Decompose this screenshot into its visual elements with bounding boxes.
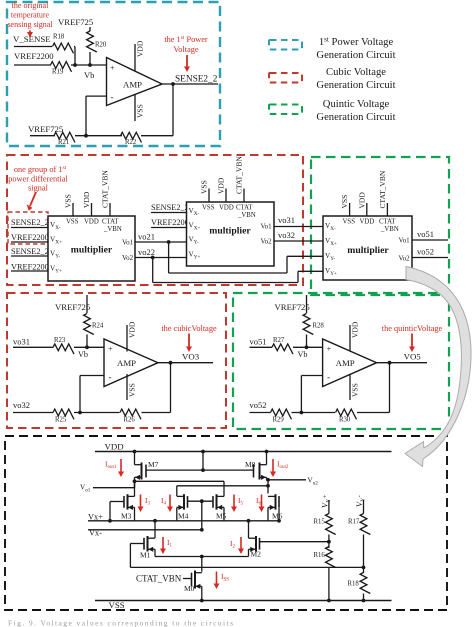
wire R17 to junction	[363, 535, 365, 574]
op-amp VDD supply line	[134, 44, 136, 71]
wire Vy- stub	[363, 500, 365, 514]
wire gate tie to VDD tap	[202, 452, 204, 471]
svg-text:M4: M4	[178, 512, 189, 521]
svg-text:vo31: vo31	[13, 337, 30, 347]
svg-text:the quinticVoltage: the quinticVoltage	[382, 324, 443, 333]
svg-text:R25: R25	[55, 417, 67, 424]
cropped caption text at page bottom	[8, 619, 233, 627]
wire M4 drain riser	[176, 486, 178, 496]
svg-text:R26: R26	[124, 417, 136, 424]
svg-text:R30: R30	[339, 417, 351, 424]
junction M8 source on VDD	[265, 450, 269, 454]
wire Vo1 lead	[93, 487, 135, 489]
svg-text:signal: signal	[28, 184, 49, 193]
wire vo31 to R23	[13, 346, 53, 348]
junction M0 on VSS	[200, 599, 204, 603]
pin VSS top of U2	[72, 203, 74, 216]
svg-text:+: +	[108, 345, 113, 354]
junction gate tie	[201, 468, 205, 472]
resistor R27	[272, 344, 293, 354]
svg-text:R24: R24	[92, 323, 104, 330]
svg-text:VDD: VDD	[105, 442, 124, 452]
wire VREF725 to R21	[30, 135, 55, 137]
svg-text:R15: R15	[314, 519, 326, 526]
transistor M7 (PMOS left)	[141, 463, 143, 480]
wire gate tie tap down to Vx-	[201, 501, 203, 530]
wire vo21 routed down and right to U4.Vy-	[168, 242, 170, 273]
svg-text:_VBN: _VBN	[237, 212, 256, 219]
svg-text:sensing signal: sensing signal	[7, 20, 53, 29]
svg-text:SENSE2_2: SENSE2_2	[175, 75, 218, 85]
wire M3 drain riser to Vo1 bus	[134, 481, 136, 496]
junction M6 gate on Vx+	[277, 519, 281, 523]
wire M7 source to VDD	[134, 452, 136, 465]
transistor M1 (NMOS)	[147, 536, 149, 552]
wire feedback vertical	[170, 363, 172, 413]
svg-text:vo51: vo51	[417, 229, 434, 239]
wire feedback vertical from output	[172, 84, 174, 136]
wire vo32 from U3.Vo2 to U4.Vx+	[274, 240, 323, 242]
wire vo51 to R27	[250, 346, 273, 348]
transistor-level schematic box (black dashed)	[5, 436, 447, 610]
pin CTAT_VBN top of U2	[109, 203, 111, 216]
op-amp AMP triangle (VO5 stage)	[323, 339, 377, 387]
junction gate tie on VDD	[201, 450, 205, 454]
junction - input node	[78, 411, 82, 415]
transistor M6 (NMOS)	[275, 494, 277, 509]
svg-text:Fig. 9. Voltage values corr: Fig. 9. Voltage values corresponding to …	[8, 619, 233, 627]
wire M4 source down	[176, 507, 178, 520]
svg-text:R27: R27	[273, 337, 285, 344]
svg-text:Generation Circuit: Generation Circuit	[316, 50, 395, 61]
wire vo52 to R29	[250, 412, 271, 414]
svg-text:CTAT_VBN: CTAT_VBN	[235, 156, 244, 194]
svg-text:R22: R22	[125, 139, 137, 146]
wire M8 drain down to Vo2 node	[266, 477, 268, 480]
junction output node	[169, 361, 173, 365]
junction tap on Vx-	[200, 528, 204, 532]
junction - input node	[300, 411, 304, 415]
wire vo32 to R25	[13, 412, 53, 414]
wire R20 to node	[89, 52, 91, 65]
wire V_SENSE to R18	[14, 46, 52, 48]
wire M1 source down to common node	[154, 549, 156, 556]
1st power voltage generation circuit box (cyan dashed)	[7, 2, 220, 146]
red arrow to output	[411, 334, 413, 349]
wire R28 to + node	[306, 335, 308, 348]
wire M2 gate lead	[260, 541, 329, 543]
wire R18 to node	[74, 46, 75, 48]
svg-text:VSS: VSS	[343, 219, 356, 226]
resistor R15	[326, 514, 336, 535]
transistor M8 (PMOS right)	[259, 463, 261, 480]
wire R30 to output vertical	[357, 412, 390, 414]
junction Vo2 cross node	[266, 484, 270, 488]
svg-text:VSS: VSS	[200, 180, 209, 194]
svg-text:M0: M0	[184, 584, 195, 593]
wire common node down to M0 drain	[201, 557, 203, 572]
wire M1 gate lead	[130, 543, 144, 545]
svg-text:vo32: vo32	[13, 400, 30, 410]
svg-text:VDD: VDD	[128, 321, 137, 338]
resistor R19	[51, 62, 72, 72]
svg-text:VSS: VSS	[66, 219, 79, 226]
wire vo52 output	[412, 257, 448, 259]
wire VREF725 down to R28	[306, 295, 308, 313]
svg-text:VDD: VDD	[84, 219, 99, 226]
cubic voltage amp section box (red dashed)	[7, 293, 226, 428]
junction node R18 branch	[73, 63, 77, 67]
svg-text:VDD: VDD	[219, 205, 234, 212]
cubic multiplier section box (red dashed)	[7, 155, 303, 285]
svg-text:one group of 1st: one group of 1st	[14, 165, 67, 174]
wire Vo1 riser	[134, 481, 136, 487]
op-amp VDD supply line	[349, 325, 351, 352]
wire to op-amp +	[293, 346, 323, 348]
svg-text:Vo2: Vo2	[122, 254, 134, 262]
svg-text:multiplier: multiplier	[209, 226, 251, 237]
svg-text:V_SENSE: V_SENSE	[13, 34, 51, 44]
svg-text:SENSE2_2: SENSE2_2	[11, 247, 49, 256]
svg-text:+: +	[110, 64, 115, 73]
svg-text:SENSE2_2: SENSE2_2	[151, 203, 189, 212]
resistor R29	[271, 409, 292, 419]
svg-text:AMP: AMP	[117, 358, 136, 368]
svg-text:R18: R18	[53, 34, 65, 41]
wire R15 to junction	[328, 535, 330, 549]
op-amp U1 AMP triangle	[107, 58, 163, 106]
gray curved annotation arrow from quintic output to transistor schematic	[405, 267, 471, 467]
wire M7 drain down to Vo1 bus	[134, 477, 136, 488]
wire vo22 from U2.Vo2 to U3.Vy+	[135, 257, 187, 259]
wire M1 drain riser	[154, 521, 156, 538]
wire Vo2 lead	[268, 479, 306, 481]
wire vo22 routed down and right to U4.Vy+	[152, 258, 154, 283]
svg-text:AMP: AMP	[123, 80, 142, 90]
svg-text:M7: M7	[148, 460, 159, 469]
resistor R21	[54, 132, 75, 142]
wire to feedback node	[292, 412, 336, 414]
wire op-amp output	[162, 83, 218, 85]
resistor R26	[120, 409, 141, 419]
svg-text:R16: R16	[314, 552, 326, 559]
resistor R25	[53, 409, 74, 419]
op-amp VSS supply line	[349, 374, 351, 400]
svg-text:VSS: VSS	[109, 600, 125, 610]
svg-text:VO3: VO3	[182, 352, 200, 362]
wire M3 source down	[134, 507, 136, 520]
svg-text:VREF725: VREF725	[275, 302, 310, 312]
wire Vo1 bus	[135, 480, 225, 482]
resistor R22	[121, 132, 142, 142]
svg-text:VO5: VO5	[404, 352, 422, 362]
resistor R18b	[360, 573, 370, 594]
junction node Vb	[88, 63, 92, 67]
svg-text:VREF2200: VREF2200	[11, 233, 49, 242]
transistor M3 (NMOS)	[127, 494, 129, 509]
quintic multiplier section box (green dashed)	[311, 157, 449, 295]
svg-text:_VBN: _VBN	[103, 226, 122, 233]
quintic voltage amp section box (green dashed)	[233, 293, 449, 429]
wire op-amp output VO5	[377, 362, 427, 364]
op-amp AMP triangle (VO3 stage)	[104, 339, 158, 387]
red arrow to output	[186, 55, 188, 68]
svg-text:Vo2: Vo2	[261, 238, 273, 246]
wire CTAT_VBN to M0 gate	[183, 578, 192, 580]
svg-text:CTAT_VBN: CTAT_VBN	[378, 170, 387, 208]
junction common source node	[200, 555, 204, 559]
junction Vy+ node	[327, 540, 331, 544]
pin VDD top of U3	[225, 189, 227, 203]
svg-text:VREF725: VREF725	[28, 124, 63, 134]
svg-text:M5: M5	[216, 512, 227, 521]
svg-text:Vo1: Vo1	[122, 239, 134, 247]
multiplier U3 block	[187, 202, 275, 266]
junction M7 source on VDD	[133, 450, 137, 454]
junction vo22	[151, 256, 155, 260]
wire to feedback node	[74, 412, 120, 414]
wire M0 source to VSS	[201, 586, 203, 600]
svg-text:Vo1: Vo1	[399, 237, 411, 245]
red arrow to output	[188, 334, 190, 349]
svg-text:VREF2200: VREF2200	[14, 51, 54, 61]
svg-text:Vo2: Vo2	[399, 255, 411, 263]
svg-text:CTAT: CTAT	[102, 219, 119, 226]
junction output node	[388, 361, 392, 365]
svg-text:R18: R18	[348, 581, 360, 588]
wire M2 source down to common node	[248, 549, 250, 556]
svg-text:power differential: power differential	[8, 175, 68, 184]
svg-text:VDD: VDD	[360, 219, 375, 226]
svg-text:CTAT: CTAT	[379, 219, 396, 226]
svg-text:R20: R20	[95, 42, 107, 49]
svg-text:Vb: Vb	[78, 350, 88, 359]
wire M6 gate tap to Vx+	[278, 508, 280, 521]
junction M8 drain node	[266, 478, 270, 482]
wire feedback node up to op-amp -	[85, 96, 87, 136]
svg-text:the cubicVoltage: the cubicVoltage	[161, 324, 217, 333]
pin VDD top of U2	[91, 203, 93, 216]
legend swatch: 1st power voltage (cyan dashed)	[269, 40, 302, 50]
op-amp VSS supply line	[126, 374, 128, 400]
junction M3 gate on Vx+	[108, 519, 112, 523]
multiplier U4 block	[323, 216, 412, 280]
wire Vy+ stub	[328, 500, 330, 514]
svg-text:vo52: vo52	[417, 247, 434, 257]
wire VREF725 down to R20	[89, 27, 91, 31]
junction gate tie tap	[200, 499, 204, 503]
svg-text:Vx+: Vx+	[88, 512, 103, 521]
wire M2 drain riser	[248, 521, 250, 538]
red slanted arrow to input group	[30, 192, 36, 206]
junction output node	[171, 82, 175, 86]
svg-text:vo32: vo32	[278, 230, 295, 240]
svg-text:R19: R19	[52, 69, 64, 76]
pin VSS top of U4	[349, 203, 351, 216]
resistor R17	[360, 514, 370, 535]
wire op-amp output VO3	[158, 362, 213, 364]
svg-text:vo22: vo22	[138, 247, 155, 257]
svg-text:-: -	[327, 372, 330, 382]
svg-text:1st Power Voltage: 1st Power Voltage	[319, 36, 394, 49]
legend swatch: quintic voltage (green dashed)	[269, 105, 302, 115]
svg-text:_VBN: _VBN	[380, 226, 399, 233]
op-amp VDD supply line	[126, 325, 128, 352]
svg-text:VREF725: VREF725	[55, 302, 90, 312]
svg-text:VSS: VSS	[351, 383, 360, 397]
svg-text:-: -	[109, 372, 112, 382]
resistor R20	[87, 31, 97, 52]
resistor R23	[53, 344, 74, 354]
multiplier U2 block	[48, 216, 135, 281]
svg-text:vo31: vo31	[278, 215, 295, 225]
svg-text:R28: R28	[313, 323, 325, 330]
svg-text:R23: R23	[54, 337, 66, 344]
transistor M4 (NMOS)	[183, 494, 185, 509]
wire M6 source down	[267, 507, 269, 520]
wire M3 gate tap	[110, 501, 124, 503]
wire node up to op-amp -	[79, 376, 81, 413]
wire R16 down to VSS	[328, 568, 330, 601]
transistor M2 (NMOS)	[255, 536, 257, 552]
svg-text:R29: R29	[273, 417, 285, 424]
transistor M5 (NMOS)	[216, 494, 218, 509]
wire vo21 from U2.Vo1 to U3.Vy-	[135, 241, 187, 243]
svg-text:VDD: VDD	[357, 192, 366, 209]
op-amp VSS supply line	[134, 95, 136, 121]
svg-text:Vo1: Vo1	[261, 223, 273, 231]
legend swatch: cubic voltage (red dashed)	[269, 73, 302, 83]
junction M1 drain on source-join	[153, 519, 157, 523]
svg-text:VREF2200: VREF2200	[11, 263, 49, 272]
svg-text:vo21: vo21	[138, 232, 155, 242]
wire node up to op-amp -	[300, 376, 302, 413]
wire R22 to output vertical	[141, 135, 173, 137]
svg-text:multiplier: multiplier	[347, 245, 389, 256]
svg-text:Vb: Vb	[298, 350, 308, 359]
pin CTAT_VBN top of U4	[386, 203, 388, 216]
wire Vo2 bus to M4 drain	[177, 485, 268, 487]
junction feedback node	[84, 134, 88, 138]
wire M8 source to VDD	[266, 452, 268, 465]
svg-text:SENSE2_2: SENSE2_2	[11, 218, 49, 227]
junction Vb node	[85, 345, 89, 349]
svg-text:VSS: VSS	[64, 194, 73, 208]
junction vo21	[167, 240, 171, 244]
wire down to Vb node line	[74, 47, 76, 66]
pin VSS top of U3	[208, 189, 210, 203]
junction R16 on VSS	[327, 599, 331, 603]
svg-text:VDD: VDD	[136, 40, 145, 57]
junction Vy- node	[362, 566, 366, 570]
wire R26 to output vertical	[142, 412, 171, 414]
svg-text:AMP: AMP	[336, 358, 355, 368]
wire Vo2 down	[267, 480, 269, 494]
svg-text:M6: M6	[272, 512, 283, 521]
junction M2 drain on source-join	[247, 519, 251, 523]
svg-text:VDD: VDD	[217, 177, 226, 194]
svg-text:VDD: VDD	[82, 191, 91, 208]
junction R18 on VSS	[362, 599, 366, 603]
svg-text:VDD: VDD	[351, 321, 360, 338]
svg-text:-: -	[111, 92, 114, 102]
svg-text:Generation Circuit: Generation Circuit	[316, 80, 395, 91]
wire R18 down to VSS	[363, 594, 365, 601]
svg-text:VSS: VSS	[136, 104, 145, 118]
wire R19 to op-amp +	[71, 64, 107, 66]
svg-text:the 1st Power: the 1st Power	[164, 35, 208, 44]
svg-text:M3: M3	[121, 512, 132, 521]
resistor R30	[336, 409, 357, 419]
svg-text:Quintic Voltage: Quintic Voltage	[323, 99, 390, 110]
svg-text:vo52: vo52	[250, 400, 267, 410]
wire R24 to + node	[86, 335, 88, 348]
wire VREF725 down to R24	[86, 295, 88, 313]
pin CTAT_VBN top of U3	[243, 189, 245, 203]
svg-text:M1: M1	[140, 551, 151, 560]
svg-text:the original: the original	[12, 1, 49, 10]
svg-text:multiplier: multiplier	[71, 245, 113, 256]
wire M4-M5 gate tie	[188, 500, 214, 502]
svg-text:M2: M2	[251, 550, 262, 559]
wire M7-M8 gate tie	[146, 469, 254, 471]
red arrow to V_SENSE	[29, 31, 31, 34]
wire vo31 from U3.Vo1 to U4.Vx-	[274, 226, 323, 228]
resistor R24	[84, 314, 94, 335]
svg-text:VSS: VSS	[202, 205, 215, 212]
wire feedback vertical	[389, 363, 391, 413]
input differential signal group box (small red dashed)	[8, 212, 48, 244]
svg-text:VSS: VSS	[340, 195, 349, 209]
resistor R18	[53, 43, 74, 53]
wire vo51 output	[412, 239, 448, 241]
svg-text:Vb: Vb	[84, 70, 94, 80]
wire R21 to feedback node	[75, 135, 122, 137]
svg-text:R21: R21	[58, 139, 69, 146]
svg-text:VSS: VSS	[128, 383, 137, 397]
svg-text:+: +	[327, 345, 332, 354]
transistor M0 (NMOS tail current source)	[194, 571, 196, 589]
svg-text:VREF725: VREF725	[58, 17, 93, 27]
svg-text:Voltage: Voltage	[173, 45, 199, 54]
junction Vo1/M7/M3 node	[133, 479, 137, 483]
junction Vb node	[305, 345, 309, 349]
wire VREF2200 to R19	[14, 64, 51, 66]
svg-text:CTAT_VBN: CTAT_VBN	[136, 574, 182, 584]
svg-text:CTAT_VBN: CTAT_VBN	[101, 170, 110, 208]
wire M5 source down	[223, 507, 225, 520]
svg-text:vo51: vo51	[250, 337, 267, 347]
svg-text:temperature: temperature	[11, 11, 50, 20]
resistor R28	[303, 314, 313, 335]
svg-text:Generation Circuit: Generation Circuit	[316, 112, 395, 123]
svg-text:VREF2200: VREF2200	[151, 218, 189, 227]
resistor R16	[326, 547, 336, 568]
svg-text:CTAT: CTAT	[236, 205, 253, 212]
svg-text:M8: M8	[245, 460, 256, 469]
wire M5 drain riser to Vo1 bus	[223, 481, 225, 496]
wire to op-amp +	[74, 346, 104, 348]
svg-text:R17: R17	[348, 519, 360, 526]
svg-text:Cubic Voltage: Cubic Voltage	[326, 67, 386, 78]
pin VDD top of U4	[366, 203, 368, 216]
